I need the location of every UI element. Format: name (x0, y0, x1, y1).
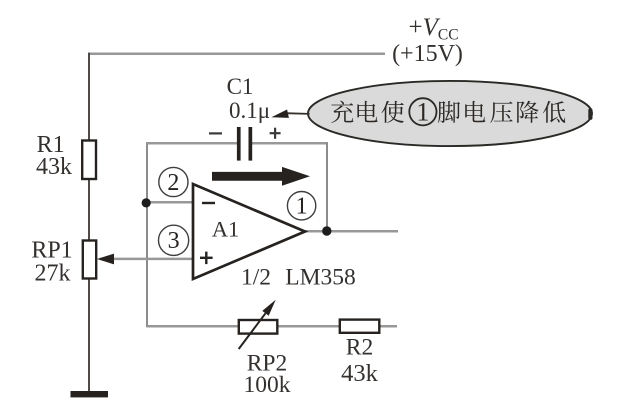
svg-text:C1: C1 (227, 74, 254, 99)
svg-text:A1: A1 (212, 217, 240, 242)
svg-text:R2: R2 (346, 335, 373, 361)
svg-text:1/2: 1/2 (241, 265, 271, 291)
svg-text:1: 1 (296, 194, 308, 220)
svg-text:27k: 27k (35, 261, 71, 287)
svg-text:43k: 43k (36, 154, 72, 180)
svg-text:LM358: LM358 (285, 265, 356, 291)
svg-text:(+15V): (+15V) (392, 41, 463, 67)
svg-text:100k: 100k (244, 372, 291, 398)
svg-text:1: 1 (416, 98, 429, 127)
svg-text:2: 2 (167, 170, 179, 196)
svg-text:3: 3 (168, 228, 180, 254)
svg-text:0.1μ: 0.1μ (229, 98, 270, 123)
svg-text:43k: 43k (341, 360, 379, 387)
